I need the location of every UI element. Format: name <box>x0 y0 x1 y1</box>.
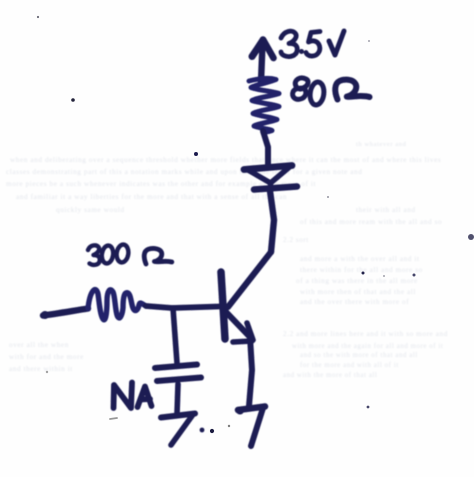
ground left diagonal <box>171 415 193 446</box>
svg-text:and so the with more of that a: and so the with more of that and all <box>300 352 418 359</box>
label 300 ohm <box>88 244 172 265</box>
dust specks <box>37 16 39 18</box>
svg-text:2.2 and more lines here and it: 2.2 and more lines here and it with so m… <box>283 330 448 338</box>
svg-text:with for and the more: with for and the more <box>9 353 84 361</box>
svg-text:their with all and: their with all and <box>356 206 416 214</box>
transistor Q1 base bar <box>221 272 225 339</box>
resistor 300ohm rounded humps <box>88 290 146 320</box>
decimal point <box>299 49 304 54</box>
digit 0 <box>101 245 115 264</box>
wire capacitor to ground <box>177 384 178 414</box>
ground left bar <box>161 414 195 418</box>
wire base input <box>43 309 88 316</box>
svg-text:and with the more of that all: and with the more of that all <box>283 372 377 379</box>
label 80 ohm <box>293 78 370 106</box>
diode D1 anode bar <box>244 166 292 170</box>
diode cathode bar <box>254 187 297 190</box>
resistor R 80ohm vertical scribble <box>249 78 279 132</box>
wire collector diagonal <box>228 252 271 307</box>
node 3.5V supply arrow <box>261 44 263 82</box>
wire diode to collector bend <box>270 191 274 252</box>
digit 0 <box>116 244 130 263</box>
svg-text:quickly same would: quickly same would <box>56 206 125 214</box>
wire emitter down <box>249 337 252 406</box>
svg-text:and familiar it a way: and familiar it a way liberties for the … <box>16 193 287 201</box>
svg-text:with more then of that an: with more then of that and the all <box>300 288 416 296</box>
V checkmark <box>329 31 344 55</box>
emitter arrowhead <box>247 323 253 340</box>
main ink <box>41 31 370 446</box>
svg-text:and the over there with m: and the over there with more of <box>300 298 409 306</box>
ground right bar <box>238 407 265 411</box>
faint bleed-through text from page back <box>6 141 448 379</box>
capacitor bottom plate <box>157 378 201 382</box>
wire base node to capacitor <box>173 308 177 363</box>
svg-text:classes demonstrating part: classes demonstrating part of this a not… <box>6 168 362 176</box>
digit 8 <box>293 78 309 99</box>
svg-text:and there within it: and there within it <box>9 365 73 373</box>
label 3.5 V <box>281 31 344 57</box>
digit 3 <box>88 245 100 265</box>
svg-text:over all the when: over all the when <box>9 341 69 349</box>
svg-text:and more a with the over: and more a with the over all and it <box>300 255 420 263</box>
capacitor top plate <box>155 365 197 369</box>
diode triangle sides <box>248 167 290 187</box>
digit 0 <box>309 81 325 105</box>
svg-text:for the more and with all of i: for the more and with all of it <box>300 362 399 369</box>
svg-text:2.2 sort: 2.2 sort <box>283 236 309 244</box>
wire resistor to base <box>146 306 219 308</box>
omega <box>144 248 172 264</box>
svg-text:with more and the again for al: with more and the again for all and more… <box>292 343 443 350</box>
svg-text:of this and more ream with the: of this and more ream with the all and s… <box>300 218 442 226</box>
stray dot <box>200 428 205 433</box>
label NA <box>114 383 152 409</box>
svg-text:when and deliberating over a s: when and deliberating over a sequence th… <box>10 156 441 164</box>
wire resistor to diode <box>263 131 268 165</box>
omega <box>335 80 369 100</box>
svg-text:th whatever and: th whatever and <box>356 141 407 148</box>
arrowhead of supply <box>252 40 263 57</box>
digit 5 <box>306 32 320 57</box>
emitter line <box>226 312 249 336</box>
svg-text:of a thing was there in: of a thing was there in the all more <box>296 277 418 285</box>
svg-text:there within for the all: there within for the all and more so <box>300 266 423 274</box>
digit 3 <box>281 31 297 56</box>
ground right diagonal <box>251 408 263 446</box>
